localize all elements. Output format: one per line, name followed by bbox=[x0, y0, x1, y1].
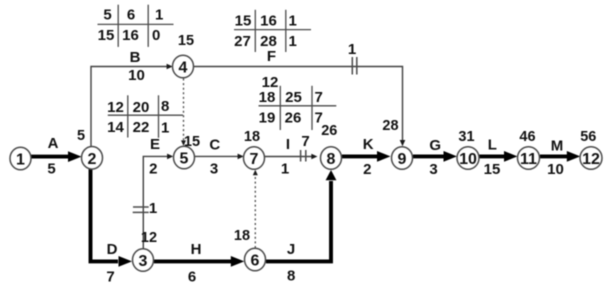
svg-text:15: 15 bbox=[98, 27, 115, 44]
svg-text:H: H bbox=[191, 241, 202, 258]
node 3 bbox=[133, 249, 154, 272]
wire: activity I arrow 7-8 bbox=[265, 156, 313, 158]
svg-text:1: 1 bbox=[281, 161, 289, 178]
svg-text:6: 6 bbox=[251, 253, 260, 270]
svg-text:B: B bbox=[130, 49, 141, 66]
svg-text:15: 15 bbox=[178, 33, 194, 49]
svg-text:2: 2 bbox=[363, 161, 371, 178]
svg-text:1: 1 bbox=[348, 41, 356, 58]
wire: activity F arrow 4-9 bbox=[194, 67, 403, 141]
wire: activity L arrow 10-11 (critical) bbox=[479, 154, 505, 158]
svg-text:D: D bbox=[107, 241, 118, 258]
svg-text:1: 1 bbox=[16, 152, 25, 169]
svg-text:28: 28 bbox=[382, 118, 398, 134]
svg-text:15: 15 bbox=[484, 161, 501, 178]
dummy arrow 6-7 dashed bbox=[254, 175, 256, 248]
wire: activity C arrow 5-7 bbox=[195, 155, 239, 157]
node 11 bbox=[518, 147, 540, 170]
svg-text:8: 8 bbox=[327, 151, 336, 168]
node 8 bbox=[321, 147, 342, 170]
svg-text:7: 7 bbox=[106, 269, 114, 286]
svg-text:7: 7 bbox=[315, 109, 323, 126]
svg-text:5: 5 bbox=[180, 151, 189, 168]
svg-text:5: 5 bbox=[77, 128, 85, 144]
svg-text:31: 31 bbox=[458, 129, 474, 145]
svg-text:26: 26 bbox=[321, 123, 337, 139]
svg-text:10: 10 bbox=[128, 67, 145, 84]
node 6 bbox=[245, 248, 266, 271]
svg-text:18: 18 bbox=[259, 89, 276, 106]
node 4 bbox=[173, 55, 194, 78]
svg-text:10: 10 bbox=[459, 151, 477, 168]
svg-text:10: 10 bbox=[547, 161, 564, 178]
svg-text:25: 25 bbox=[285, 89, 302, 106]
svg-text:7: 7 bbox=[301, 133, 309, 150]
wire: activity K arrow 8-9 (critical) bbox=[342, 154, 378, 158]
dummy arrow 4-5 dashed bbox=[183, 79, 185, 142]
svg-text:L: L bbox=[488, 137, 497, 154]
svg-text:14: 14 bbox=[107, 119, 124, 136]
wire: activity G arrow 9-10 (critical) bbox=[413, 154, 445, 158]
svg-text:8: 8 bbox=[287, 268, 295, 285]
node 10 bbox=[457, 147, 479, 170]
svg-text:16: 16 bbox=[122, 27, 139, 44]
svg-text:1: 1 bbox=[155, 6, 163, 23]
svg-text:M: M bbox=[551, 137, 564, 154]
node 9 bbox=[392, 147, 413, 170]
svg-text:7: 7 bbox=[315, 89, 323, 106]
svg-text:5: 5 bbox=[47, 160, 55, 177]
svg-text:6: 6 bbox=[188, 269, 196, 286]
svg-text:26: 26 bbox=[285, 109, 302, 126]
table 1 grid lines (activity B data) bbox=[98, 23, 174, 25]
wire: activity M arrow 11-12 (critical) bbox=[540, 154, 569, 158]
svg-text:12: 12 bbox=[107, 99, 124, 116]
svg-text:12: 12 bbox=[141, 230, 157, 246]
node 1 bbox=[10, 147, 31, 170]
svg-text:46: 46 bbox=[519, 129, 535, 145]
wire: activity J run and riser 6-8 (critical) bbox=[266, 181, 331, 261]
svg-text:1: 1 bbox=[289, 13, 297, 30]
wire: activity H arrow 3-6 (critical) bbox=[154, 259, 232, 263]
float hatch marks on I bbox=[300, 150, 302, 162]
float hatch marks on E with value 1 bbox=[133, 206, 149, 208]
float hatch marks on F with value 1 bbox=[351, 57, 353, 75]
svg-text:12: 12 bbox=[582, 151, 600, 168]
svg-text:18: 18 bbox=[244, 129, 260, 145]
svg-text:15: 15 bbox=[184, 134, 200, 150]
svg-text:19: 19 bbox=[259, 109, 276, 126]
table 3 grid lines (activity I data) bbox=[259, 105, 337, 107]
svg-text:9: 9 bbox=[398, 151, 407, 168]
svg-text:8: 8 bbox=[161, 98, 169, 115]
svg-text:3: 3 bbox=[210, 161, 218, 178]
wire: activity B riser and arrow 2-4 bbox=[91, 67, 168, 149]
svg-text:18: 18 bbox=[234, 228, 250, 244]
table 4 grid lines (activity E data) bbox=[108, 114, 183, 116]
svg-text:6: 6 bbox=[127, 6, 135, 23]
wire: activity D riser and arrow 2-3 (critical) bbox=[91, 168, 119, 261]
svg-text:I: I bbox=[286, 136, 290, 153]
node 2 bbox=[82, 147, 103, 170]
svg-text:1: 1 bbox=[161, 120, 169, 137]
svg-text:2: 2 bbox=[149, 161, 157, 178]
node 7 bbox=[244, 147, 265, 170]
svg-text:F: F bbox=[267, 48, 276, 65]
node 5 bbox=[174, 146, 195, 169]
svg-text:A: A bbox=[48, 135, 59, 152]
svg-text:2: 2 bbox=[88, 151, 97, 168]
svg-text:5: 5 bbox=[103, 6, 111, 23]
svg-text:27: 27 bbox=[234, 33, 251, 50]
svg-text:3: 3 bbox=[139, 253, 148, 270]
svg-text:28: 28 bbox=[260, 33, 277, 50]
svg-text:1: 1 bbox=[149, 200, 157, 217]
svg-text:20: 20 bbox=[133, 99, 150, 116]
node 12 bbox=[580, 147, 602, 170]
svg-text:J: J bbox=[287, 241, 295, 258]
svg-text:22: 22 bbox=[133, 119, 150, 136]
svg-text:56: 56 bbox=[580, 129, 596, 145]
svg-text:7: 7 bbox=[250, 151, 259, 168]
table 2 grid lines (activity F data) bbox=[234, 29, 311, 31]
svg-text:11: 11 bbox=[520, 151, 537, 168]
svg-text:4: 4 bbox=[179, 60, 188, 77]
svg-text:C: C bbox=[209, 137, 220, 154]
svg-text:15: 15 bbox=[235, 13, 252, 30]
svg-text:K: K bbox=[363, 136, 374, 153]
svg-text:0: 0 bbox=[152, 27, 160, 44]
wire: activity E riser and arrow 3-5 bbox=[143, 156, 168, 249]
svg-text:16: 16 bbox=[260, 13, 277, 30]
svg-text:1: 1 bbox=[289, 33, 297, 50]
svg-text:E: E bbox=[150, 136, 160, 153]
svg-text:3: 3 bbox=[429, 161, 437, 178]
wire: activity A arrow 1-2 (critical) bbox=[31, 155, 69, 159]
svg-text:G: G bbox=[429, 137, 441, 154]
